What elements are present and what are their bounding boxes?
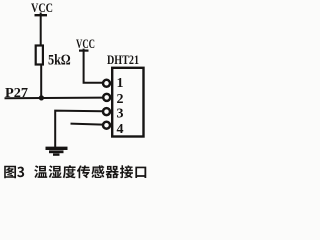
power VCC right bar symbol	[79, 49, 89, 51]
wire pin 3 to ground	[55, 111, 103, 147]
svg-text:1: 1	[117, 76, 124, 91]
pin 4 bubble	[103, 122, 110, 129]
wire P27 to pin 2	[5, 97, 103, 100]
svg-text:5kΩ: 5kΩ	[48, 53, 71, 69]
wire VCC right down and to pin 1	[84, 49, 103, 83]
wire pin 4 stub	[71, 124, 103, 125]
power VCC left bar symbol	[35, 14, 48, 16]
svg-text:2: 2	[117, 92, 124, 107]
pin 1 bubble	[103, 80, 110, 87]
resistor R1 body	[36, 46, 43, 65]
node junction dot	[39, 95, 44, 100]
wire resistor bottom to node	[40, 65, 42, 99]
svg-text:4: 4	[117, 122, 124, 137]
pin 3 bubble	[103, 108, 110, 115]
wire VCC to resistor top	[40, 13, 42, 47]
ground symbol	[46, 148, 68, 154]
pin 2 bubble	[103, 94, 110, 101]
svg-text:VCC: VCC	[76, 36, 95, 51]
svg-text:3: 3	[117, 107, 124, 122]
svg-text:VCC: VCC	[31, 0, 53, 15]
svg-text:DHT21: DHT21	[107, 52, 139, 67]
caption 图3 温湿度传感器接口	[4, 165, 146, 178]
IC U1 DHT21 box	[112, 68, 143, 137]
